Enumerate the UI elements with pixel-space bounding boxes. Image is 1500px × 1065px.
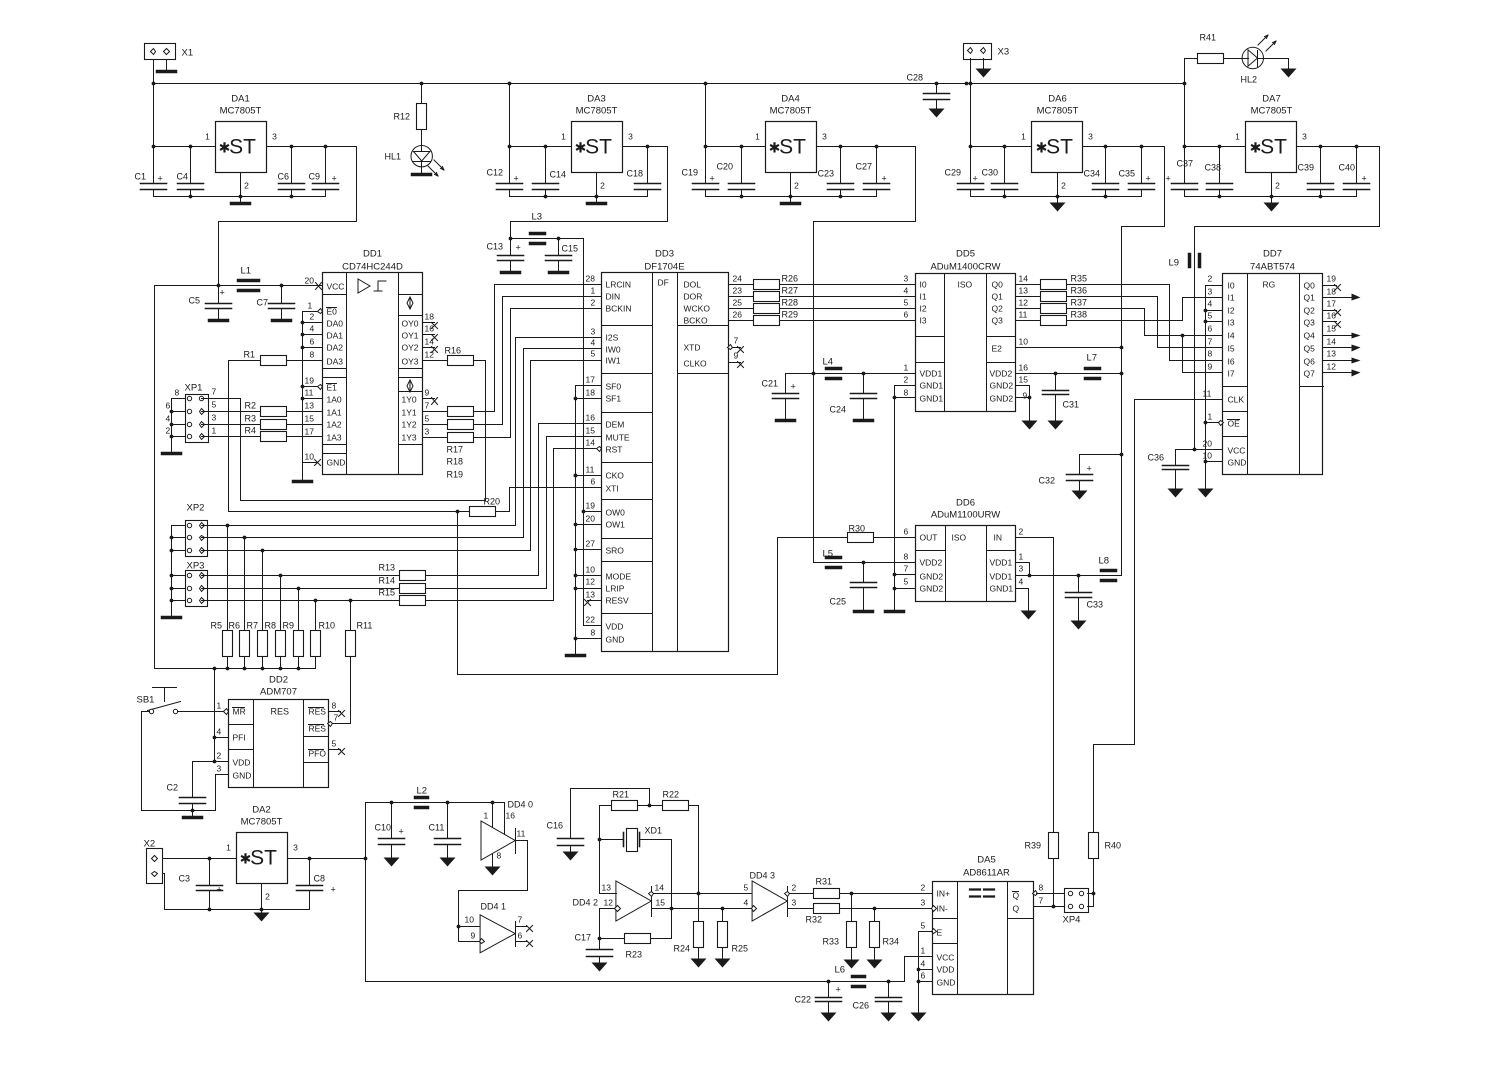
svg-text:DOR: DOR	[684, 292, 703, 302]
svg-text:1A2: 1A2	[327, 420, 342, 430]
svg-text:+: +	[791, 382, 796, 392]
DD4.1 pin6 nc	[516, 941, 528, 943]
svg-text:28: 28	[586, 274, 596, 284]
svg-text:C11: C11	[429, 823, 445, 833]
ground HL1	[421, 168, 423, 173]
svg-text:C22: C22	[795, 995, 812, 1005]
wire R16 to XP1 pin7 riser	[474, 360, 486, 362]
svg-text:15: 15	[305, 414, 315, 424]
svg-text:8: 8	[591, 628, 596, 638]
svg-text:1: 1	[591, 286, 596, 296]
ground SB1 C2 rail	[192, 811, 194, 816]
svg-text:4: 4	[1019, 577, 1024, 587]
wire DA2 output row	[288, 858, 366, 860]
svg-text:BCKO: BCKO	[684, 316, 708, 326]
svg-text:DOL: DOL	[684, 280, 702, 290]
svg-text:13: 13	[1019, 286, 1029, 296]
DD3 OW0 stub	[584, 511, 602, 513]
wire R30 to DD6 OUT	[874, 537, 916, 539]
wire DA7 input row	[1185, 146, 1246, 148]
svg-text:6: 6	[518, 931, 523, 941]
svg-text:+: +	[973, 174, 978, 184]
svg-text:3: 3	[293, 843, 298, 853]
svg-text:4: 4	[744, 898, 749, 908]
svg-text:11: 11	[1019, 310, 1028, 320]
wire R37 to DD7 I4	[1067, 309, 1223, 336]
svg-text:R32: R32	[806, 915, 823, 925]
svg-text:AD8611AR: AD8611AR	[963, 868, 1010, 879]
wire XP2/XP3 left ground bus	[172, 526, 186, 616]
ground DD6 GND1	[1021, 611, 1037, 620]
svg-text:C8: C8	[314, 874, 326, 884]
wire XP1 pin3 to R3	[202, 424, 261, 426]
svg-text:CKO: CKO	[606, 471, 625, 481]
wire X1/rail to DA1 input	[153, 84, 155, 147]
svg-text:3: 3	[921, 898, 926, 908]
svg-text:MODE: MODE	[606, 572, 632, 582]
ground HL2	[1281, 69, 1297, 78]
ground GND1 bus	[886, 610, 904, 614]
svg-text:10: 10	[1019, 337, 1029, 347]
svg-text:+: +	[332, 174, 337, 184]
svg-text:C28: C28	[907, 73, 924, 83]
svg-text:DA6: DA6	[1048, 94, 1066, 105]
svg-text:R39: R39	[1025, 841, 1042, 851]
wire R27 to DD5 I1	[780, 296, 916, 298]
svg-text:C18: C18	[627, 169, 644, 179]
svg-text:XTD: XTD	[684, 343, 701, 353]
svg-text:CLKO: CLKO	[684, 359, 708, 369]
svg-text:R6: R6	[229, 621, 241, 631]
wire DA5 VDD GND tie	[919, 969, 933, 971]
wire DA3 ground rail	[510, 196, 648, 198]
wire R3 to DD1 1A2	[287, 424, 323, 426]
wire XP2 row3	[202, 550, 531, 552]
wire I4 to I7 branch	[1183, 336, 1223, 373]
svg-text:1: 1	[1019, 552, 1024, 562]
svg-text:DA5: DA5	[977, 855, 995, 866]
ground DA3	[596, 197, 598, 203]
svg-text:MUTE: MUTE	[606, 433, 630, 443]
svg-text:C1: C1	[135, 172, 147, 182]
svg-text:GND2: GND2	[920, 584, 944, 594]
svg-text:26: 26	[733, 310, 743, 320]
svg-text:Q6: Q6	[1304, 357, 1316, 367]
svg-text:R8: R8	[265, 621, 277, 631]
svg-text:XD1: XD1	[645, 826, 663, 836]
svg-text:1: 1	[755, 132, 760, 142]
svg-text:I1: I1	[920, 292, 927, 302]
svg-text:L2: L2	[417, 786, 428, 797]
svg-text:Q0: Q0	[992, 280, 1004, 290]
svg-text:ST: ST	[229, 136, 256, 159]
wire DA1 output to L1 row	[219, 147, 357, 286]
svg-text:6: 6	[310, 337, 315, 347]
svg-text:13: 13	[602, 883, 612, 893]
svg-text:R15: R15	[379, 588, 396, 598]
svg-text:VCC: VCC	[937, 953, 955, 963]
wire R36 to DD7 I5	[1067, 297, 1223, 348]
DA5 pin8 diamond	[1033, 891, 1038, 896]
resistor R17	[448, 407, 474, 417]
wire R13 to DEM riser	[426, 575, 539, 577]
svg-text:MC7805T: MC7805T	[576, 106, 618, 117]
svg-text:3: 3	[212, 413, 217, 423]
svg-text:R21: R21	[613, 790, 630, 800]
wire DD5 VDD2 row L7	[1016, 373, 1122, 375]
svg-text:3: 3	[792, 898, 797, 908]
svg-text:PFI: PFI	[233, 733, 246, 743]
svg-text:RG: RG	[1263, 280, 1276, 290]
svg-text:C26: C26	[853, 1001, 870, 1011]
svg-text:R7: R7	[247, 621, 259, 631]
svg-text:GND: GND	[327, 458, 346, 468]
wire rail to DA3 input	[509, 84, 511, 147]
ground C15	[550, 271, 568, 275]
svg-text:X3: X3	[998, 47, 1010, 58]
svg-text:DD1: DD1	[363, 249, 382, 260]
svg-text:DA3: DA3	[587, 94, 605, 105]
svg-text:20: 20	[1203, 439, 1213, 449]
svg-text:Q2: Q2	[992, 304, 1004, 314]
svg-text:R2: R2	[245, 401, 257, 411]
svg-text:GND: GND	[233, 771, 252, 781]
svg-text:3: 3	[591, 327, 596, 337]
svg-text:E2: E2	[992, 344, 1003, 354]
svg-text:1: 1	[1208, 412, 1213, 422]
svg-text:3: 3	[1019, 564, 1024, 574]
svg-text:19: 19	[1327, 274, 1337, 284]
svg-text:15: 15	[656, 898, 666, 908]
svg-text:1: 1	[205, 132, 210, 142]
svg-text:C35: C35	[1119, 169, 1136, 179]
DD3 CKO stub	[576, 475, 602, 477]
ground XP2 XP3	[163, 616, 181, 620]
wire R32 to DA5 IN-	[840, 908, 933, 910]
svg-text:10: 10	[465, 915, 475, 925]
svg-text:DA1: DA1	[327, 331, 344, 341]
svg-text:7: 7	[425, 401, 430, 411]
wire +5V rail above DD2	[155, 668, 316, 670]
svg-text:1: 1	[217, 701, 222, 711]
svg-text:✱: ✱	[219, 140, 231, 156]
svg-text:5: 5	[1208, 311, 1213, 321]
svg-text:C30: C30	[982, 168, 999, 178]
ground DA2	[261, 910, 263, 913]
svg-text:6: 6	[904, 310, 909, 320]
DD7 Q0 pin19 nc	[1324, 285, 1337, 287]
svg-text:RES: RES	[271, 707, 290, 717]
HL2 arrows	[1258, 35, 1268, 45]
svg-text:19: 19	[305, 376, 315, 386]
svg-text:SB1: SB1	[137, 695, 155, 706]
ground R33	[844, 960, 860, 969]
DD4.1 pin7 nc	[516, 926, 528, 928]
svg-text:I5: I5	[1228, 344, 1235, 354]
svg-text:1A1: 1A1	[327, 408, 342, 418]
svg-text:C25: C25	[830, 597, 847, 607]
svg-text:C14: C14	[550, 170, 567, 180]
svg-text:I2S: I2S	[606, 333, 619, 343]
wire DD2 VDD net	[215, 669, 229, 762]
svg-text:+: +	[882, 174, 887, 184]
svg-text:GND2: GND2	[920, 572, 944, 582]
svg-text:6: 6	[1208, 324, 1213, 334]
svg-text:XP2: XP2	[187, 503, 205, 514]
wire DA5 VCC from +5 rail	[905, 957, 933, 982]
svg-text:L8: L8	[1099, 556, 1110, 567]
DD1 schmitt buffer symbol	[358, 279, 370, 293]
wire R19 riser to DD3 BCKIN	[474, 309, 602, 438]
svg-text:3: 3	[1088, 132, 1093, 142]
svg-text:I4: I4	[1228, 331, 1235, 341]
ground C31	[1048, 421, 1064, 430]
svg-text:IN: IN	[994, 533, 1003, 543]
svg-text:11: 11	[305, 388, 314, 398]
svg-text:Q3: Q3	[1304, 318, 1316, 328]
svg-text:I6: I6	[1228, 357, 1235, 367]
svg-text:R40: R40	[1105, 841, 1122, 851]
svg-text:+: +	[331, 885, 336, 895]
svg-text:BCKIN: BCKIN	[606, 304, 632, 314]
wire DA1 input row	[154, 146, 216, 148]
svg-text:Q1: Q1	[1304, 293, 1316, 303]
svg-text:C27: C27	[856, 162, 873, 172]
svg-text:74ABT574: 74ABT574	[1250, 262, 1295, 273]
svg-text:XP4: XP4	[1063, 915, 1081, 926]
svg-text:✱: ✱	[1250, 140, 1262, 156]
wire XP2 riser I2S	[516, 338, 602, 526]
ground C17	[592, 963, 608, 972]
svg-text:Q: Q	[1013, 904, 1020, 914]
svg-text:OY2: OY2	[402, 343, 419, 353]
HL1 arrows	[428, 166, 438, 176]
svg-text:RESV: RESV	[606, 596, 629, 606]
wire XD1 right to pin15 riser	[640, 840, 672, 939]
wire DD4.2 pin14 row to DD4.3 pin5	[654, 893, 753, 895]
svg-text:6: 6	[166, 401, 171, 411]
svg-text:MC7805T: MC7805T	[1037, 106, 1079, 117]
svg-text:L6: L6	[835, 965, 846, 976]
svg-text:12: 12	[1327, 362, 1337, 372]
svg-text:R19: R19	[447, 470, 464, 480]
svg-text:MC7805T: MC7805T	[1251, 106, 1293, 117]
ground C11	[440, 858, 456, 867]
ground DA7	[1271, 197, 1273, 203]
wire +5V L1 row	[155, 285, 323, 287]
svg-text:OY3: OY3	[402, 357, 419, 367]
svg-text:DD4 3: DD4 3	[750, 871, 776, 881]
wire DD7 I3 stub	[1206, 321, 1223, 323]
svg-text:VCC: VCC	[327, 282, 345, 292]
svg-text:C4: C4	[177, 172, 189, 182]
svg-text:4: 4	[1208, 299, 1213, 309]
svg-text:C6: C6	[278, 172, 290, 182]
LED HL2	[1224, 58, 1243, 60]
wire DA1 pin2	[240, 173, 242, 197]
ground R25	[715, 959, 731, 968]
svg-text:24: 24	[733, 274, 743, 284]
wire DD4.3 pin3 to R32	[788, 908, 814, 910]
svg-text:L1: L1	[241, 266, 252, 277]
wire DD6 VDD1 row L8	[1016, 575, 1122, 577]
svg-text:+: +	[399, 827, 404, 837]
svg-text:2: 2	[1275, 181, 1280, 191]
svg-text:DA2: DA2	[252, 805, 270, 816]
svg-text:SRO: SRO	[606, 546, 625, 556]
svg-text:6: 6	[921, 971, 926, 981]
wire DA5 nQ to XP4	[1037, 893, 1065, 895]
svg-text:C31: C31	[1063, 400, 1080, 410]
svg-text:C3: C3	[179, 874, 191, 884]
svg-text:11: 11	[1203, 389, 1212, 399]
svg-text:2: 2	[904, 375, 909, 385]
DD2 pin7 diamond	[328, 722, 333, 727]
ground X3	[983, 59, 985, 69]
DD3 XTI wire from R20	[496, 488, 602, 512]
ground DA5	[911, 1013, 927, 1022]
DD3 OW1 stub	[576, 524, 602, 526]
svg-text:C19: C19	[682, 168, 699, 178]
wire DA7 output to L9 bus	[1195, 147, 1380, 450]
svg-text:5: 5	[425, 414, 430, 424]
svg-text:22: 22	[586, 615, 596, 625]
wire DD4.0 pin8 ground	[492, 855, 494, 867]
svg-text:2: 2	[310, 312, 315, 322]
svg-text:4: 4	[166, 414, 171, 424]
wire DD4.0 pin16	[504, 803, 506, 835]
svg-text:DF: DF	[658, 278, 669, 288]
wire R11 to DD2 pin7	[329, 657, 351, 724]
wire XP1 pin1 to R4	[202, 436, 261, 438]
svg-text:IN-: IN-	[937, 904, 949, 914]
svg-text:8: 8	[310, 350, 315, 360]
svg-text:4: 4	[217, 727, 222, 737]
svg-text:4: 4	[310, 324, 315, 334]
svg-text:Q5: Q5	[1304, 344, 1316, 354]
svg-text:DD2: DD2	[269, 675, 288, 686]
wire R20 left row	[229, 511, 470, 513]
svg-text:12: 12	[425, 350, 435, 360]
wire R35 to DD7 I6	[1067, 285, 1223, 361]
svg-text:GND: GND	[606, 635, 625, 645]
svg-text:L7: L7	[1087, 353, 1098, 364]
svg-text:L4: L4	[823, 357, 834, 368]
svg-text:18: 18	[586, 388, 596, 398]
svg-text:LRIP: LRIP	[606, 584, 625, 594]
svg-text:DA3: DA3	[327, 357, 344, 367]
wire +5V analog bottom rail	[366, 981, 905, 983]
wire DD6 GND2 stubs	[895, 574, 916, 576]
svg-text:1Y1: 1Y1	[402, 408, 417, 418]
svg-text:ST: ST	[779, 136, 806, 159]
svg-text:25: 25	[733, 298, 743, 308]
svg-text:Q4: Q4	[1304, 331, 1316, 341]
wire XP2 riser IW0	[524, 349, 602, 538]
ground C26	[881, 1013, 897, 1022]
wire DD5 GND1 bus	[895, 386, 916, 611]
svg-text:C21: C21	[762, 379, 779, 389]
svg-text:E: E	[937, 928, 943, 938]
ground R34	[867, 960, 883, 969]
ground R24	[691, 959, 707, 968]
wire R1 left to R20 row	[229, 361, 261, 512]
svg-text:C12: C12	[487, 168, 504, 178]
svg-text:7: 7	[212, 387, 217, 397]
svg-text:DIN: DIN	[606, 292, 621, 302]
wire DA2 +5V riser	[365, 803, 367, 982]
svg-text:ISO: ISO	[952, 533, 967, 543]
svg-text:ST: ST	[585, 136, 612, 159]
svg-text:5: 5	[904, 298, 909, 308]
ground X1	[166, 60, 168, 70]
wire DA7 output row	[1297, 146, 1380, 148]
svg-text:OW0: OW0	[606, 508, 626, 518]
svg-text:DD4 2: DD4 2	[573, 898, 599, 908]
svg-text:ST: ST	[1260, 136, 1287, 159]
svg-text:MC7805T: MC7805T	[770, 106, 812, 117]
svg-text:3: 3	[425, 427, 430, 437]
svg-text:2: 2	[794, 181, 799, 191]
svg-text:12: 12	[1019, 298, 1029, 308]
svg-text:GND2: GND2	[990, 394, 1014, 404]
svg-text:DA4: DA4	[781, 94, 799, 105]
svg-text:R3: R3	[245, 414, 257, 424]
ground bus A	[567, 654, 585, 658]
svg-text:R16: R16	[445, 346, 462, 356]
svg-text:R20: R20	[484, 497, 501, 507]
wire R30 row	[778, 537, 848, 539]
ground C22	[821, 1013, 837, 1022]
svg-text:3: 3	[904, 274, 909, 284]
svg-text:XP3: XP3	[187, 561, 205, 572]
ground XP1	[163, 452, 181, 456]
svg-text:+: +	[1362, 174, 1367, 184]
svg-text:I0: I0	[920, 280, 927, 290]
DD2 pin5 PFO nc	[329, 749, 341, 751]
DD3 SF1 stub	[576, 398, 602, 400]
svg-text:IW1: IW1	[606, 356, 621, 366]
DD1 driver symbol bottom	[407, 380, 413, 392]
svg-text:✱: ✱	[769, 140, 781, 156]
svg-text:X2: X2	[144, 839, 156, 850]
svg-text:13: 13	[586, 590, 596, 600]
svg-text:R4: R4	[245, 426, 257, 436]
ground DA6	[1057, 197, 1059, 203]
svg-text:DD3: DD3	[655, 249, 674, 260]
svg-text:C24: C24	[830, 405, 847, 415]
svg-text:2: 2	[1019, 527, 1024, 537]
svg-text:12: 12	[604, 898, 614, 908]
svg-text:VDD1: VDD1	[990, 572, 1013, 582]
wire DD7 VCC row	[1176, 449, 1223, 451]
LED HL1	[421, 130, 423, 146]
svg-text:17: 17	[1327, 299, 1337, 309]
svg-text:20: 20	[586, 514, 596, 524]
wire DA3 output row	[623, 146, 668, 148]
ground C25	[855, 610, 873, 614]
svg-text:9: 9	[1023, 391, 1028, 401]
svg-text:SF0: SF0	[606, 382, 622, 392]
svg-text:6: 6	[904, 527, 909, 537]
svg-text:8: 8	[1039, 883, 1044, 893]
svg-text:C13: C13	[487, 242, 504, 252]
svg-text:16: 16	[1019, 363, 1029, 373]
ground C32	[1072, 491, 1088, 500]
svg-text:19: 19	[586, 501, 596, 511]
ground DD5 GND2	[1022, 421, 1038, 430]
ground C36	[1168, 489, 1184, 498]
